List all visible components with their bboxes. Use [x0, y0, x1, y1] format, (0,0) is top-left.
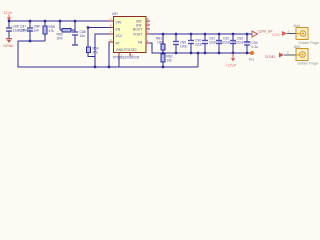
IC bottom pins GND PGOOD [118, 53, 120, 57]
svg-text:J6A1: J6A1 [293, 24, 301, 28]
svg-text:22uF: 22uF [195, 43, 203, 47]
node junction (95,67) [94, 66, 96, 68]
svg-text:12V0_GF: 12V0_GF [258, 30, 273, 34]
capacitor C92 [216, 34, 238, 53]
capacitor C87 [18, 21, 41, 41]
svg-text:BOOT: BOOT [133, 28, 142, 32]
resistor R59 [57, 21, 76, 41]
resistor R58 [43, 21, 55, 41]
wire RT net [109, 42, 113, 67]
svg-text:100n: 100n [180, 45, 188, 49]
resistor R61 divider top [156, 34, 165, 53]
wire VCC net [95, 34, 113, 67]
power port DGND left arrow at connector 2 [265, 53, 284, 59]
capacitor C89 [173, 34, 188, 53]
capacitor C91 [202, 34, 224, 53]
svg-text:VCC: VCC [116, 34, 124, 38]
svg-text:47k: 47k [49, 29, 55, 33]
svg-text:1R0: 1R0 [57, 37, 63, 41]
svg-text:Golden Finger: Golden Finger [299, 41, 320, 45]
capacitor C88 [72, 21, 86, 45]
power port 12V0 out right arrow [252, 30, 273, 38]
svg-text:U5?: U5? [112, 12, 118, 16]
svg-text:VOUT: VOUT [133, 33, 142, 37]
capacitor C90 [188, 34, 203, 53]
svg-text:22uF 25V: 22uF 25V [18, 29, 33, 33]
svg-text:12V0: 12V0 [272, 33, 281, 37]
test point TP1 [250, 51, 254, 55]
capacitor C86 [6, 21, 28, 38]
wire main 12V bus [9, 20, 113, 22]
power port 12V0 left arrow at connector 1 [272, 31, 288, 37]
svg-text:1uF: 1uF [34, 29, 40, 33]
wire FB net [150, 43, 252, 53]
resistor R60 [87, 47, 99, 57]
svg-text:10n: 10n [80, 34, 86, 38]
svg-text:TP1: TP1 [249, 57, 255, 61]
power port 12V0 top-left [4, 11, 13, 21]
connector J6A pin 1 [287, 33, 296, 35]
node junction bus x9 [8, 20, 10, 22]
svg-text:RT: RT [116, 42, 120, 46]
svg-text:DGND: DGND [265, 55, 276, 59]
IC pin stubs left [110, 20, 114, 22]
svg-text:1: 1 [287, 51, 289, 55]
node junctions on rails [162, 33, 164, 35]
svg-text:100k: 100k [157, 41, 165, 45]
svg-text:1: 1 [288, 30, 290, 34]
wire EN net [88, 27, 113, 29]
connector J6A [293, 24, 320, 45]
node junction (30,41) [29, 40, 31, 42]
node junction bus x75 [74, 20, 76, 22]
capacitor C93 [230, 34, 252, 53]
node junction (109,67) [108, 66, 110, 68]
connector J6B pin 1 [284, 54, 296, 56]
connector J6B [293, 45, 319, 65]
svg-text:+12V0: +12V0 [225, 64, 236, 68]
svg-text:12V0: 12V0 [4, 11, 13, 15]
svg-text:Golden Finger: Golden Finger [298, 61, 320, 65]
wire VOUT rail [150, 33, 252, 35]
op-amp U5 regulator IC body [112, 12, 146, 60]
capacitor C94 [244, 34, 258, 53]
node junction bus x60 [59, 20, 61, 22]
IC pin stubs right [146, 20, 150, 22]
svg-text:10k: 10k [167, 59, 173, 63]
svg-text:DGND: DGND [4, 44, 15, 48]
svg-text:GND PGOOD: GND PGOOD [116, 48, 137, 52]
wire gnd stitch x198 [197, 53, 199, 67]
svg-text:TPS562200DDCR: TPS562200DDCR [113, 56, 141, 60]
node junction bus x45 [44, 20, 46, 22]
svg-text:0.1u: 0.1u [252, 45, 259, 49]
resistor R62 divider bottom [161, 54, 173, 68]
ground DGND left [4, 39, 15, 49]
svg-text:EN: EN [116, 27, 121, 31]
node junction bus x30 [29, 20, 31, 22]
svg-text:J6B1: J6B1 [293, 45, 301, 49]
node junction (247,53) [246, 52, 248, 54]
wire gnd return left [18, 41, 198, 67]
svg-text:VIN: VIN [116, 20, 122, 24]
power port +12V0 down [225, 53, 236, 68]
